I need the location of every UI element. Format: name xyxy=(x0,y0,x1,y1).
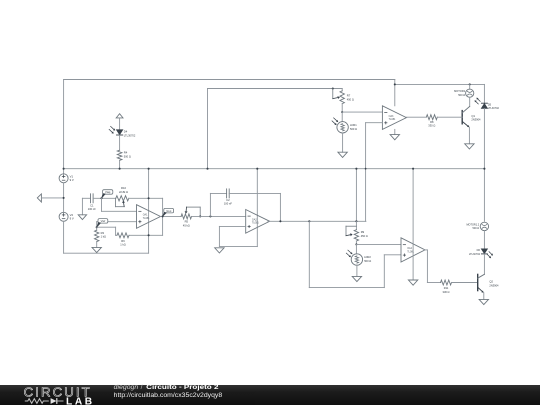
wire R5 to OA2 minus xyxy=(192,215,246,217)
wire V1 to V2 xyxy=(63,183,65,213)
ground Q1 xyxy=(465,144,474,149)
capacitor C2 100nF xyxy=(224,189,232,206)
svg-text:500 Ω: 500 Ω xyxy=(472,227,479,230)
svg-text:LAB: LAB xyxy=(66,397,95,405)
svg-text:Vtap: Vtap xyxy=(105,190,111,194)
motor MOTOR1 xyxy=(454,89,474,97)
svg-text:TL081: TL081 xyxy=(389,118,396,121)
wire OA3 plus vertical to OA2 output xyxy=(365,123,367,222)
wire OA2 plus to ground xyxy=(219,226,257,246)
wire C1 to pot R10 xyxy=(93,197,116,199)
svg-text:100 nF: 100 nF xyxy=(224,202,232,206)
op-amp OA2 TL081 xyxy=(246,210,270,234)
ground Q2 xyxy=(479,299,488,304)
svg-text:1 kΩ: 1 kΩ xyxy=(120,243,125,247)
svg-text:R3: R3 xyxy=(101,231,105,235)
wire OA3 V- to ground xyxy=(394,129,396,134)
svg-text:diegogn: diegogn xyxy=(114,384,139,391)
node junction divider top xyxy=(341,111,343,113)
footer title line xyxy=(114,384,219,391)
wire Vtap to OA1 minus xyxy=(102,198,137,211)
svg-text:500 Ω: 500 Ω xyxy=(458,93,465,97)
voltage source V1 xyxy=(59,174,74,183)
node junction R4/mid-rail xyxy=(119,168,121,170)
wire OA2 output xyxy=(268,220,366,222)
wire OA3 output to R8 xyxy=(406,116,426,118)
wire top supply rail xyxy=(64,79,395,81)
op-amp OA3 TL081 xyxy=(382,106,406,130)
wire R11 to Q2 base xyxy=(452,282,478,284)
svg-text:R10: R10 xyxy=(121,186,126,190)
node junction vertical A at output xyxy=(355,220,357,222)
logo resistor-diode squiggle xyxy=(25,398,64,404)
svg-text:500 Ω: 500 Ω xyxy=(364,259,371,263)
wire OA3 plus input xyxy=(366,122,383,124)
svg-text:1 kΩ: 1 kΩ xyxy=(101,235,106,239)
svg-text:2N3904: 2N3904 xyxy=(471,118,481,122)
wire bottom-left to OA1 V- xyxy=(64,252,149,254)
svg-text:R4: R4 xyxy=(124,151,128,155)
svg-text:TL081: TL081 xyxy=(143,217,150,220)
svg-text:2N3904: 2N3904 xyxy=(489,283,499,287)
wire divider top rail xyxy=(208,88,343,90)
ground R3 xyxy=(92,247,101,252)
footer bar xyxy=(0,385,540,405)
node junction V1/V2 midpoint xyxy=(63,197,65,199)
wire R4 to mid rail xyxy=(119,160,121,168)
wire Vref to R6 xyxy=(97,227,117,235)
wire motor1 to Q1 collector xyxy=(469,97,471,106)
svg-text:Q2: Q2 xyxy=(489,279,493,283)
wire motor2 to LED2 xyxy=(483,231,485,249)
node junction plus vertical at mid rail xyxy=(365,168,367,170)
potentiometer R10 22.8k xyxy=(116,186,129,207)
transistor Q1 2N3904 xyxy=(462,106,481,127)
svg-text:450 Ω: 450 Ω xyxy=(361,234,368,238)
node junction mid rail right end xyxy=(483,168,485,170)
wire pot R10 to feedback corner xyxy=(129,197,163,199)
svg-text:45 kΩ: 45 kΩ xyxy=(183,223,190,227)
node junction OA1 output/feedback xyxy=(162,215,164,217)
node junction output down-elbow xyxy=(308,220,310,222)
wire OA4 supply vertical xyxy=(412,169,414,280)
wire divider to OA4 minus xyxy=(356,243,401,245)
node junction vertical A at rail xyxy=(355,168,357,170)
wire C2 to output xyxy=(229,193,280,221)
wire motor1 stub xyxy=(469,84,471,89)
potentiometer R5 45k xyxy=(181,207,200,227)
svg-text:MOTOR1: MOTOR1 xyxy=(454,89,466,93)
wire mid rail up to divider rail xyxy=(207,89,209,169)
resistor R6 1k xyxy=(117,233,129,247)
svg-text:LDR1: LDR1 xyxy=(350,123,357,127)
node junction R7 wiper tap xyxy=(332,87,334,89)
svg-text:http://circuitlab.com/cx35c2v2: http://circuitlab.com/cx35c2v2dyqy8 xyxy=(114,392,223,399)
ground OA4 xyxy=(408,280,417,285)
wire LED2 to Q2 collector xyxy=(483,254,485,274)
node Vtap junction xyxy=(100,197,102,199)
node junction mid-rail left xyxy=(63,168,65,170)
svg-text:R6: R6 xyxy=(121,239,125,243)
wire OA1 supply vertical (V+ to V-) xyxy=(148,169,150,254)
node junction R5 wiper xyxy=(199,215,201,217)
svg-text:D4: D4 xyxy=(124,130,128,134)
wire vertical A rail to output xyxy=(355,169,357,222)
flag Vtap xyxy=(102,190,113,199)
svg-text:100 nF: 100 nF xyxy=(88,207,96,211)
op-amp OA4 TL081 xyxy=(401,238,425,262)
photodiode D4 LTL30702 xyxy=(109,126,136,137)
svg-text:/: / xyxy=(141,384,143,391)
wire Q1 emitter to ground xyxy=(468,127,470,144)
node junction motor1 stub xyxy=(469,83,471,85)
node junction C2 tap xyxy=(209,215,211,217)
ground LDR2 xyxy=(352,276,361,281)
svg-text:500 Ω: 500 Ω xyxy=(124,154,131,158)
wire C2 left elbow xyxy=(210,193,226,216)
svg-text:LTL30702: LTL30702 xyxy=(469,253,481,256)
svg-text:LDR2: LDR2 xyxy=(364,255,371,259)
wire OA1 feedback right side xyxy=(162,198,164,235)
motor MOTOR1.2 xyxy=(466,222,488,230)
wire R3 to ground xyxy=(96,242,98,248)
op-amp OA1 TL081 xyxy=(137,205,161,229)
wire C1 left + ground drop xyxy=(82,198,90,215)
wire Q2 emitter to ground xyxy=(483,293,485,300)
logo CIRCUIT outlined text xyxy=(24,385,92,400)
svg-text:500 Ω: 500 Ω xyxy=(350,127,357,131)
wire divider to OA3 minus xyxy=(342,111,382,113)
svg-text:330 Ω: 330 Ω xyxy=(443,290,450,294)
resistor R3 1k xyxy=(95,230,107,241)
antenna ANT1 (above D4) xyxy=(116,114,123,130)
node junction divider bottom xyxy=(355,243,357,245)
flag Vout xyxy=(163,208,174,216)
wire R9 to LDR2 junction xyxy=(355,241,357,244)
svg-text:TL081: TL081 xyxy=(252,222,259,225)
ground C1 xyxy=(78,215,86,220)
svg-text:MOTOR1.2: MOTOR1.2 xyxy=(466,223,479,226)
wire R8 to Q1 base xyxy=(437,116,462,118)
capacitor C1 100nF xyxy=(88,194,96,211)
led D6 LTL30702 xyxy=(469,248,493,258)
svg-text:C1: C1 xyxy=(90,204,94,208)
svg-text:450 Ω: 450 Ω xyxy=(347,97,354,101)
svg-text:LTL30702: LTL30702 xyxy=(124,133,136,137)
resistor R4 500 xyxy=(117,150,131,160)
wire LDR2 to ground xyxy=(356,265,358,276)
wire R7 to LDR1 junction xyxy=(341,104,343,112)
svg-text:22.8k Ω: 22.8k Ω xyxy=(119,190,128,194)
node Vref junction xyxy=(96,226,98,228)
transistor Q2 2N3904 xyxy=(478,274,499,293)
node junction OA1 V+ crossing xyxy=(148,197,150,199)
wire LDR1 to ground xyxy=(342,133,344,152)
svg-text:Vref: Vref xyxy=(101,219,106,223)
wire Vref to OA1 plus xyxy=(97,222,137,231)
led D5 LTL30702 xyxy=(475,98,500,111)
wire right rail upper xyxy=(483,84,485,103)
node junction V- crossing R6 wire xyxy=(148,234,150,236)
wire mid supply rail xyxy=(64,168,484,170)
wire D4 to R4 xyxy=(119,135,121,150)
ground OA2 xyxy=(215,248,224,253)
svg-text:R7: R7 xyxy=(347,94,351,98)
potentiometer R9 450 xyxy=(346,221,368,241)
node junction C2 feedback at output xyxy=(279,220,281,222)
node junction OA1 V+ at mid rail xyxy=(148,168,150,170)
wire V2 down xyxy=(63,221,65,253)
svg-text:R11: R11 xyxy=(444,286,449,290)
photoresistor LDR1 500 xyxy=(332,112,357,133)
voltage source V2 xyxy=(59,212,74,221)
svg-text:Circuito - Projeto 2: Circuito - Projeto 2 xyxy=(146,384,219,391)
svg-text:330 Ω: 330 Ω xyxy=(428,124,435,128)
svg-text:D5: D5 xyxy=(488,102,492,106)
photoresistor LDR2 500 xyxy=(346,244,371,265)
resistor R8 330 xyxy=(426,115,437,128)
svg-text:C2: C2 xyxy=(226,198,230,202)
antenna ANT2 (left, at V1/V2 midpoint) xyxy=(37,194,63,202)
svg-text:R5: R5 xyxy=(185,220,189,224)
resistor R11 330 xyxy=(441,280,452,294)
flag Vref xyxy=(97,219,108,228)
node junction OA2 V+ at mid rail xyxy=(256,168,258,170)
wire OA1 output xyxy=(161,215,182,217)
wire OA1 feedback bottom xyxy=(130,234,163,236)
svg-text:R9: R9 xyxy=(361,230,365,234)
wire OA4 output elbow xyxy=(424,250,440,283)
logo LAB text xyxy=(66,397,95,405)
footer url line xyxy=(114,392,223,399)
ground OA3 xyxy=(390,135,399,140)
svg-text:D6: D6 xyxy=(477,248,481,252)
svg-text:LTL30702: LTL30702 xyxy=(488,107,500,110)
wire right rail mid xyxy=(483,108,485,221)
svg-text:9 V: 9 V xyxy=(70,178,74,182)
svg-text:R8: R8 xyxy=(430,120,434,124)
wire OA3 V+ from top rail xyxy=(394,80,396,106)
svg-text:9 V: 9 V xyxy=(70,216,74,220)
potentiometer R7 450 xyxy=(333,89,354,104)
ground LDR1 xyxy=(338,152,347,157)
wire left vertical from top rail to V1 xyxy=(63,80,65,174)
node junction inner rail at mid rail xyxy=(206,168,208,170)
svg-text:Vout: Vout xyxy=(166,209,171,213)
svg-text:Q1: Q1 xyxy=(471,114,475,118)
wire OA2 output to OA4 plus xyxy=(309,221,401,287)
wire top branch to right rail xyxy=(395,83,485,85)
wire OA2 supply vertical xyxy=(256,169,258,247)
node junction OA4 V+ at mid rail xyxy=(412,168,414,170)
node junction branch at OA3 V+ xyxy=(394,83,396,85)
